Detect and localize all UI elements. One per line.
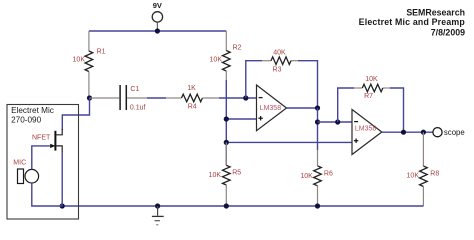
svg-text:0.1uf: 0.1uf: [130, 105, 146, 112]
resistor R4 1K: [166, 85, 219, 111]
resistor R1 10K: [73, 31, 106, 98]
svg-text:1K: 1K: [187, 85, 196, 92]
wire U2 output: [382, 131, 433, 133]
wire R7 left feedback riser: [338, 88, 354, 122]
wire node A to FET drain: [62, 98, 89, 130]
wire to U2 inverting input: [318, 121, 353, 123]
svg-text:R5: R5: [232, 170, 241, 177]
junction dot R6 bottom: [315, 203, 320, 208]
junction dot 9V on rail: [155, 28, 160, 33]
svg-text:scope: scope: [444, 128, 465, 137]
svg-text:C1: C1: [130, 86, 139, 93]
svg-text:10K: 10K: [73, 57, 86, 64]
resistor R5 10K: [209, 142, 242, 206]
svg-text:R3: R3: [273, 67, 282, 74]
junction dot output to second stage: [315, 119, 320, 124]
wire bias rail to U2 non-inverting input: [226, 141, 352, 143]
microphone MIC: [13, 159, 38, 183]
junction dot output/R7: [401, 130, 406, 135]
svg-text:MIC: MIC: [13, 159, 26, 166]
wire R4 to inverting input: [219, 97, 257, 99]
wire ground rail: [62, 205, 423, 207]
junction dot ground symbol tap: [155, 203, 160, 208]
wire FET source to ground rail: [61, 153, 63, 207]
junction dot output/R3: [315, 105, 320, 110]
wire U1 output: [287, 107, 318, 109]
transistor Q1 NFET: [32, 129, 62, 153]
wire R7 right feedback drop: [390, 88, 404, 132]
junction dot R7 left at U2 inverting input: [335, 119, 340, 124]
resistor R8 10K: [407, 132, 440, 206]
title text SEMResearch block: [359, 7, 466, 37]
scope output terminal: [433, 128, 465, 138]
svg-text:10K: 10K: [210, 56, 223, 63]
svg-text:10K: 10K: [407, 173, 420, 180]
svg-text:10K: 10K: [365, 76, 378, 83]
svg-text:Electret Mic and Preamp: Electret Mic and Preamp: [359, 17, 466, 27]
svg-text:R2: R2: [233, 45, 242, 52]
junction dot mic/source on ground: [60, 203, 65, 208]
resistor R2 10K: [210, 31, 242, 80]
resistor R7 10K: [354, 76, 390, 100]
svg-text:10K: 10K: [300, 173, 313, 180]
capacitor C1 0.1uf: [90, 85, 148, 112]
Electret Mic enclosure box 270-090: [7, 105, 79, 220]
wire mic bottom to ground rail: [32, 183, 62, 206]
wire top power rail: [89, 30, 226, 32]
svg-text:R8: R8: [430, 170, 439, 177]
wire output node down: [317, 108, 319, 150]
svg-text:9V: 9V: [153, 1, 162, 10]
wire bias to non-inverting input U1: [226, 118, 256, 120]
svg-text:10K: 10K: [209, 172, 222, 179]
wire R3 left feedback riser: [246, 61, 262, 98]
junction dot R3 left at op-amp U1 inverting input: [243, 95, 248, 100]
svg-text:7/8/2009: 7/8/2009: [431, 28, 465, 38]
resistor R3 40K: [262, 50, 298, 74]
svg-text:R4: R4: [188, 104, 197, 111]
op-amp U2 LM358: [352, 110, 382, 155]
svg-text:270-090: 270-090: [11, 116, 41, 125]
svg-text:LM358: LM358: [355, 125, 377, 132]
node A junction dot R1/C1/FET drain: [87, 95, 92, 100]
op-amp U1 LM358: [257, 85, 287, 131]
svg-text:R1: R1: [97, 48, 106, 55]
svg-text:Electret Mic: Electret Mic: [11, 106, 54, 115]
junction dot R5 top at + line U2: [224, 140, 229, 145]
svg-text:40K: 40K: [273, 50, 286, 57]
svg-text:SEMResearch: SEMResearch: [406, 7, 465, 17]
svg-text:R6: R6: [324, 171, 333, 178]
junction dot bias at + input line U1: [224, 116, 229, 121]
svg-text:LM358: LM358: [260, 105, 282, 112]
junction dot output/R8: [421, 130, 426, 135]
wire mic top to FET gate: [32, 146, 50, 170]
svg-text:R7: R7: [364, 93, 373, 100]
wire R3 right feedback drop to output node: [298, 61, 318, 108]
junction dot R5 bottom: [224, 203, 229, 208]
wire C1 to R4: [147, 97, 166, 99]
wire R2 bias column down to R5: [225, 80, 227, 165]
ground: [152, 206, 164, 225]
svg-text:NFET: NFET: [32, 135, 51, 142]
resistor R6 10K: [300, 150, 333, 206]
power supply 9V terminal: [152, 1, 162, 31]
